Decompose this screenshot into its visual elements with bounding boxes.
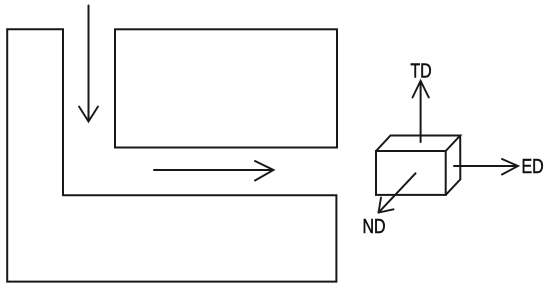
svg-text:ND: ND (363, 215, 386, 237)
wire: ED arrow shaft (454, 165, 517, 167)
wire: TD arrow shaft (420, 82, 422, 143)
wire: extrusion arrow shaft (154, 169, 272, 171)
ND arrow head barb 2 (379, 209, 394, 212)
wire: ND arrow shaft (379, 173, 416, 212)
label ED (522, 155, 544, 177)
svg-text:ED: ED (522, 155, 544, 177)
cube top face (376, 136, 460, 152)
cube right face (446, 136, 461, 195)
plunger arrow head (79, 107, 98, 122)
label TD (410, 60, 431, 82)
cube front face (376, 151, 446, 195)
L-shaped die block (7, 29, 336, 281)
wire: plunger arrow shaft (88, 6, 90, 121)
label ND (363, 215, 386, 237)
ND arrow head barb 1 (379, 198, 382, 213)
TD arrow head (413, 81, 429, 98)
svg-text:TD: TD (410, 60, 431, 82)
ED arrow head (502, 159, 518, 175)
extrusion arrow head (255, 161, 274, 181)
upper die block rectangle (115, 29, 337, 147)
